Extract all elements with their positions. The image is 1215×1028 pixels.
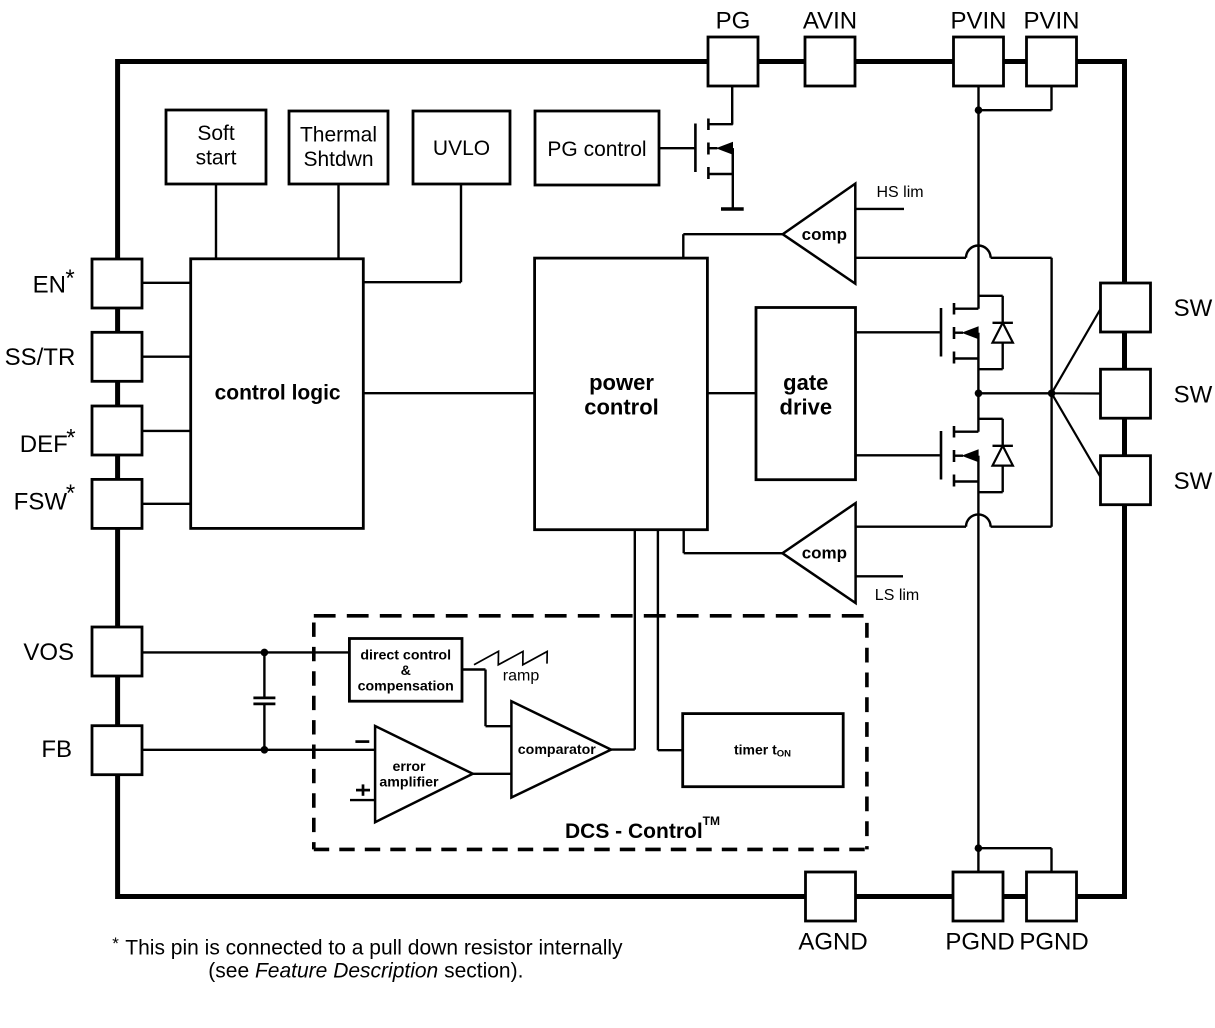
block gate drive — [756, 308, 856, 480]
svg-text:(see Feature Description secti: (see Feature Description section). — [208, 960, 523, 983]
footnote line 2 — [208, 960, 523, 983]
DCS-Control dashed boundary — [314, 616, 867, 850]
wire HS comp output to power control — [683, 234, 782, 258]
wire UVLO to control logic — [363, 184, 461, 282]
svg-text:VOS: VOS — [23, 639, 74, 666]
svg-text:DEF: DEF — [20, 431, 68, 458]
wire Soft start to control logic — [215, 184, 217, 259]
block direct control and compensation — [349, 639, 462, 702]
label DEF — [20, 424, 76, 458]
block PG control — [535, 111, 659, 185]
junction node PGND — [975, 844, 983, 852]
svg-text:compensation: compensation — [358, 679, 454, 695]
wire error amplifier noninverting stub — [350, 799, 375, 801]
wire Q2 source to Q3 drain (SW node) — [977, 359, 979, 432]
pin SW 1 — [1101, 283, 1151, 332]
pin PGND 1 — [945, 872, 1014, 956]
pin PG — [708, 8, 758, 86]
wire HS lim stub — [855, 208, 904, 210]
wire PGND node to PGND pin 2 — [978, 848, 1051, 872]
pin EN — [92, 259, 142, 308]
label HS lim — [877, 184, 924, 201]
wire comparator output to power control — [611, 530, 635, 750]
wire PVIN to Q2 drain — [977, 86, 979, 309]
svg-text:PG: PG — [716, 8, 751, 35]
wire fan to SW pin 2 — [1052, 392, 1101, 394]
block control logic — [191, 259, 364, 529]
junction SW fan point — [1048, 390, 1056, 398]
wire gate drive to Q3 gate — [856, 454, 940, 456]
svg-text:EN: EN — [33, 271, 66, 298]
svg-text:PGND: PGND — [1019, 929, 1088, 956]
svg-text:power: power — [589, 370, 654, 395]
wire LS comp input to SW net (with hop) — [856, 514, 1052, 526]
svg-text:comp: comp — [802, 544, 847, 563]
wire Thermal Shtdwn to control logic — [337, 184, 339, 259]
svg-text:LS lim: LS lim — [875, 587, 919, 604]
pin VOS — [92, 627, 142, 676]
svg-text:SW: SW — [1174, 468, 1213, 495]
wire direct control output to comparator (ramp node) — [462, 670, 511, 727]
pin SW 2 — [1101, 369, 1151, 418]
ramp waveform symbol — [474, 651, 547, 684]
comparator U2 (LS current limit comp) — [782, 503, 855, 603]
wire EN pin to control logic — [142, 282, 191, 284]
svg-text:drive: drive — [780, 395, 833, 420]
junction node PVIN — [975, 106, 983, 114]
svg-text:FB: FB — [41, 736, 72, 763]
ground symbol — [721, 207, 744, 210]
block power control — [535, 258, 708, 530]
svg-text:SW: SW — [1174, 382, 1213, 409]
svg-text:PG control: PG control — [547, 138, 646, 161]
wire VOS pin to direct control block — [142, 651, 349, 653]
svg-text:amplifier: amplifier — [379, 774, 439, 790]
junction VOS capacitor tap — [261, 649, 269, 657]
pin FB — [92, 726, 142, 775]
pin FSW — [92, 479, 142, 528]
svg-text:error: error — [392, 759, 426, 775]
wire Q3 source to PGND node — [977, 482, 979, 849]
svg-text:AGND: AGND — [798, 929, 867, 956]
wire SS/TR pin to control logic — [142, 356, 191, 358]
body diode D1 (high-side) — [978, 296, 1013, 369]
pin AVIN — [803, 8, 857, 86]
svg-text:Thermal: Thermal — [300, 124, 377, 147]
pin AGND — [798, 872, 867, 956]
junction node SW — [975, 390, 983, 398]
wire LS lim stub — [856, 575, 903, 577]
block Soft start — [166, 110, 266, 184]
label DCS-Control trademark — [565, 814, 720, 843]
wire fan to SW pin 3 — [1052, 393, 1101, 477]
label error amplifier inverting input (minus) — [355, 740, 369, 743]
capacitor C1 — [253, 652, 275, 749]
transistor Q2 (high-side NMOS) — [941, 303, 979, 364]
label FB — [41, 736, 72, 763]
label error amplifier noninverting input (plus) — [356, 784, 370, 795]
pin PVIN 2 — [1023, 8, 1079, 86]
wire PG pin to Q1 drain — [731, 86, 733, 125]
wire DEF pin to control logic — [142, 430, 191, 432]
svg-text:ramp: ramp — [503, 667, 540, 684]
wire SW node to fan point — [979, 392, 1052, 394]
svg-text:*: * — [112, 934, 119, 953]
svg-text:gate: gate — [783, 370, 828, 395]
pin PGND 2 — [1019, 872, 1088, 956]
IC outer boundary (thick border) — [118, 62, 1125, 897]
svg-text:comp: comp — [802, 225, 847, 244]
pin SW 3 — [1101, 456, 1151, 505]
pin SS/TR — [92, 332, 142, 381]
pin PVIN 1 — [950, 8, 1006, 86]
svg-text:control logic: control logic — [215, 382, 341, 405]
footnote line 1 — [112, 934, 623, 960]
wire PGND node to PGND pin 1 — [977, 848, 979, 872]
svg-text:direct control: direct control — [360, 647, 451, 663]
svg-text:AVIN: AVIN — [803, 8, 857, 35]
wire fan to SW pin 1 — [1052, 309, 1101, 393]
svg-text:Soft: Soft — [197, 122, 235, 145]
svg-text:SW: SW — [1174, 295, 1213, 322]
svg-text:PVIN: PVIN — [950, 8, 1006, 35]
svg-text:Shtdwn: Shtdwn — [303, 148, 373, 171]
svg-text:start: start — [196, 146, 237, 169]
wire FSW pin to control logic — [142, 503, 191, 505]
comparator U1 (HS current limit comp) — [783, 184, 856, 284]
label FSW — [14, 480, 76, 516]
wire error amplifier output to comparator — [473, 773, 512, 775]
wire gate drive to Q2 gate — [856, 331, 940, 333]
block Thermal Shtdwn — [289, 111, 388, 184]
svg-text:HS lim: HS lim — [877, 184, 924, 201]
svg-text:FSW: FSW — [14, 489, 68, 516]
svg-text:control: control — [584, 395, 659, 420]
transistor Q3 (low-side NMOS) — [941, 426, 979, 487]
svg-text:PGND: PGND — [945, 929, 1014, 956]
wire FB pin to error amplifier inverting input — [142, 749, 375, 751]
wire PVIN2 down and left to PVIN node — [979, 86, 1052, 110]
wire SW sense vertical net — [1050, 258, 1052, 527]
svg-text:*: * — [66, 480, 75, 507]
svg-text:SS/TR: SS/TR — [5, 344, 76, 371]
svg-text:comparator: comparator — [518, 742, 597, 758]
wire power control to gate drive — [707, 392, 756, 394]
label SW 1 — [1174, 295, 1213, 322]
svg-text:&: & — [401, 663, 411, 679]
label SW 2 — [1174, 382, 1213, 409]
label SW 3 — [1174, 468, 1213, 495]
svg-text:PVIN: PVIN — [1023, 8, 1079, 35]
wire timer to power control — [658, 530, 683, 751]
label EN — [33, 265, 75, 298]
block timer tON — [683, 714, 844, 787]
wire control logic to power control — [363, 392, 534, 394]
body diode D2 (low-side) — [978, 419, 1013, 492]
svg-text:This pin is connected to a pul: This pin is connected to a pull down res… — [125, 937, 623, 960]
comparator U4 (DCS comparator) — [511, 701, 611, 797]
svg-text:*: * — [65, 265, 74, 292]
op-amp U3 (error amplifier) — [375, 726, 473, 822]
junction FB capacitor tap — [261, 746, 269, 754]
pin DEF — [92, 406, 142, 455]
svg-text:*: * — [66, 424, 75, 451]
block UVLO — [413, 111, 510, 184]
transistor Q1 (PG open-drain NMOS) — [659, 119, 733, 208]
svg-text:UVLO: UVLO — [433, 137, 490, 160]
wire LS comp output to power control — [684, 530, 783, 554]
label LS lim — [875, 587, 919, 604]
label SS/TR — [5, 344, 76, 371]
label VOS — [23, 639, 74, 666]
wire HS comp input to SW net (with hop) — [855, 246, 1051, 258]
